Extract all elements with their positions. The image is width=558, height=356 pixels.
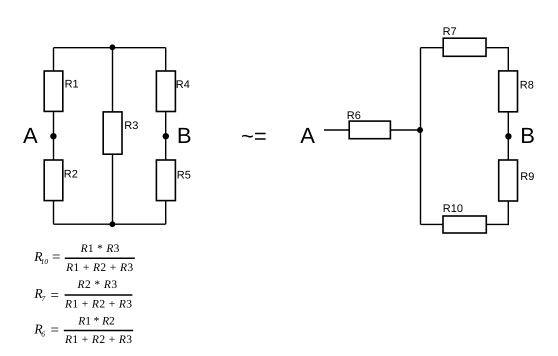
formula R7 = R2*R3/(R1+R2+R3) — [33, 279, 132, 311]
svg-text:R10: R10 — [443, 203, 463, 215]
resistor R2 — [44, 160, 63, 201]
wire left-circuit bottom rail — [54, 223, 166, 225]
wire left branch lower — [53, 201, 55, 225]
wire right branch lower — [165, 201, 167, 225]
node B (left circuit) — [163, 133, 169, 139]
junction star point — [417, 127, 423, 133]
resistor R6 — [349, 121, 390, 139]
resistor R3 — [103, 112, 122, 154]
resistor R10 — [443, 216, 486, 233]
wire from A to R6 — [324, 129, 349, 131]
wire star vertical — [420, 48, 422, 225]
resistor R8 — [499, 71, 518, 112]
formula R10 = R1*R3/(R1+R2+R3) — [33, 243, 135, 274]
wire top rail to R7 — [421, 47, 444, 49]
svg-text:=: = — [51, 323, 59, 339]
resistor R7 — [443, 38, 486, 56]
svg-text:A: A — [300, 123, 315, 148]
svg-text:R1 + R2 + R3: R1 + R2 + R3 — [64, 334, 132, 346]
wire R10 to star vertical — [421, 223, 444, 225]
svg-text:10: 10 — [41, 257, 49, 266]
svg-text:R4: R4 — [176, 79, 190, 91]
svg-text:R1: R1 — [65, 79, 79, 91]
svg-text:~=: ~= — [241, 123, 267, 148]
svg-text:R2 * R3: R2 * R3 — [77, 279, 118, 291]
svg-text:R6: R6 — [347, 110, 361, 122]
svg-text:6: 6 — [41, 330, 45, 339]
svg-text:R9: R9 — [520, 171, 534, 183]
wire left branch middle — [53, 111, 55, 160]
svg-text:R8: R8 — [520, 79, 534, 91]
svg-text:R1 * R3: R1 * R3 — [80, 243, 120, 255]
resistor R4 — [156, 71, 175, 112]
svg-text:R2: R2 — [64, 169, 78, 181]
svg-text:B: B — [520, 123, 535, 148]
wire R9 to bottom corner — [486, 201, 508, 224]
svg-text:R3: R3 — [124, 120, 138, 132]
formula R6 = R1*R2/(R1+R2+R3) — [33, 315, 133, 346]
wire R7 to right rail — [486, 48, 508, 71]
wire middle branch upper — [112, 48, 114, 112]
junction top of R3 — [110, 44, 116, 50]
svg-text:R1 * R2: R1 * R2 — [77, 315, 115, 327]
resistor R9 — [499, 160, 518, 201]
svg-text:=: = — [52, 250, 60, 266]
wire right branch upper — [165, 48, 167, 72]
wire R8 to R9 — [507, 112, 509, 160]
svg-text:R5: R5 — [177, 170, 191, 182]
wire left branch upper — [53, 48, 55, 72]
wire right branch middle — [165, 112, 167, 161]
wire left-circuit top rail — [54, 47, 166, 49]
wire middle branch lower — [112, 154, 114, 224]
svg-text:R7: R7 — [443, 26, 457, 38]
wire from R6 to junction — [390, 129, 420, 131]
svg-text:R1 + R2 + R3: R1 + R2 + R3 — [64, 299, 132, 311]
svg-text:=: = — [51, 288, 59, 304]
junction bottom of R3 — [110, 221, 116, 227]
svg-text:B: B — [177, 123, 192, 148]
resistor R1 — [44, 71, 63, 111]
svg-text:7: 7 — [42, 294, 46, 303]
resistor R5 — [156, 160, 175, 201]
node A (left circuit) — [50, 133, 56, 139]
svg-text:A: A — [23, 123, 38, 148]
node B (right circuit) — [505, 133, 511, 139]
svg-text:R1 + R2 + R3: R1 + R2 + R3 — [65, 262, 133, 274]
